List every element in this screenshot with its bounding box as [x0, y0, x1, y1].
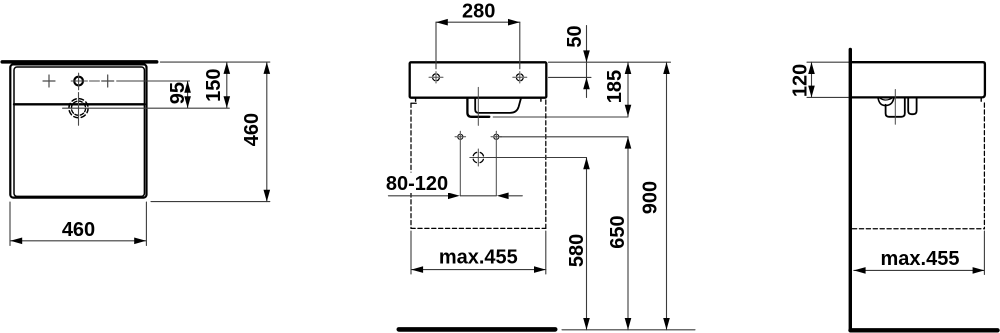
left faucet hole cross: [429, 72, 443, 83]
floor bar (front): [399, 327, 555, 332]
tap centerline to 95 dim: [117, 80, 190, 82]
460 horizontal dim line: [10, 240, 146, 242]
bowl vertical centerline (front): [477, 87, 479, 125]
580 dim line: [586, 158, 588, 330]
max.455 ext right (front): [545, 231, 547, 274]
ext line bottom right to 460v dim: [151, 201, 270, 203]
wall line: [849, 50, 852, 331]
right faucet hole cross: [513, 72, 527, 83]
side dashed clearance bottom: [853, 228, 985, 230]
280 ext line left: [435, 22, 437, 69]
faucet hole: [74, 77, 83, 86]
svg-text:900: 900: [640, 181, 662, 214]
dashed clearance right edge: [545, 100, 547, 228]
side dashed depth line vertical: [983, 103, 985, 229]
svg-text:460: 460: [241, 113, 263, 146]
280 ext line right: [519, 22, 521, 69]
alternative tap hole right cross: [102, 75, 114, 87]
max.455 ext left (front): [410, 231, 412, 274]
top view outer rim: [10, 64, 146, 197]
svg-text:460: 460: [62, 219, 95, 241]
120 dim line: [811, 62, 813, 97]
small connection circle left: [458, 134, 463, 139]
top view back edge bar: [2, 60, 157, 64]
side basin bottom tick: [980, 99, 982, 102]
svg-text:280: 280: [462, 1, 495, 23]
460 horizontal dim ext right: [145, 202, 147, 246]
650 dim line: [627, 137, 629, 330]
80-120 dim middle line: [460, 195, 496, 197]
drain vertical centerline: [78, 93, 80, 126]
drain horizontal centerline / ext to 150 dim: [63, 107, 230, 109]
tap centerline dash segment: [90, 80, 100, 82]
95 dim line: [187, 81, 189, 108]
svg-text:150: 150: [203, 69, 225, 102]
460 vertical dim line: [266, 62, 268, 202]
80-120 label backing: [384, 173, 451, 194]
ext from right small circle to 650 dim: [500, 136, 628, 138]
svg-text:120: 120: [790, 64, 812, 97]
basin bottom tick right: [540, 99, 542, 101]
alternative tap hole left cross: [43, 75, 55, 87]
side drain dome inner arc: [880, 98, 892, 100]
460 horizontal dim ext left: [9, 202, 11, 246]
80-120 dim left lead line: [388, 195, 449, 197]
left faucet hole dashed circle: [433, 74, 440, 81]
bowl outline outer (front): [467, 99, 489, 117]
bowl outline inner (front): [475, 99, 521, 113]
dashed clearance top-left corner dash: [411, 102, 416, 104]
side overflow channel: [908, 99, 916, 115]
large drain connection dashed circle: [473, 152, 484, 163]
svg-text:max.455: max.455: [439, 246, 518, 268]
120 ext line bottom: [807, 96, 848, 98]
basin top ext line to 900 dim: [549, 61, 671, 63]
max.455 dim line (side): [854, 269, 985, 271]
svg-text:max.455: max.455: [881, 248, 960, 270]
max.455 dim line (front): [411, 269, 546, 271]
small circle right cross + ext down to 80-120 dim: [491, 131, 502, 196]
svg-text:50: 50: [564, 25, 586, 47]
dashed clearance bottom edge: [411, 227, 546, 229]
side trap centerline: [894, 90, 896, 125]
50 dim line: [586, 26, 588, 98]
faucet hole horizontal centerline: [71, 80, 87, 82]
ext line from back bar to 460v dim: [160, 61, 269, 63]
large circle cross: [470, 149, 487, 166]
svg-text:650: 650: [607, 215, 629, 248]
floor ext line to 900 dim: [562, 329, 695, 331]
side basin profile: [850, 62, 985, 97]
drain inner dashed circle: [71, 101, 85, 115]
side drain dome outer: [878, 98, 894, 105]
top view inner rim: [14, 67, 144, 196]
side floor bar: [851, 328, 998, 332]
drain outer dashed circle: [69, 99, 88, 118]
svg-text:580: 580: [566, 234, 588, 267]
svg-text:185: 185: [604, 70, 626, 103]
side trap tub: [886, 99, 905, 117]
80-120 dim right tail line: [508, 195, 522, 197]
ext from large circle to 580 dim: [487, 157, 587, 159]
basin bottom tick left: [415, 99, 417, 101]
faucet centerline ext to 50 dim: [549, 76, 592, 78]
small connection circle right: [494, 134, 499, 139]
svg-text:80-120: 80-120: [386, 173, 448, 195]
max.455 ext right (side): [983, 231, 985, 275]
top view deck front edge: [14, 103, 144, 105]
120 ext line top: [807, 61, 848, 63]
small circle left cross + ext down to 80-120 dim: [455, 131, 466, 196]
150 dim line: [226, 62, 228, 108]
right faucet hole dashed circle: [516, 74, 523, 81]
900 dim line: [666, 62, 668, 330]
front basin body: [410, 62, 547, 97]
185 dim line: [627, 62, 629, 116]
faucet hole vertical centerline: [78, 73, 80, 90]
280 dim line: [436, 21, 520, 23]
dashed clearance left edge: [410, 103, 412, 228]
drain level ext line to 185 dim: [493, 116, 628, 118]
svg-text:95: 95: [167, 82, 189, 104]
